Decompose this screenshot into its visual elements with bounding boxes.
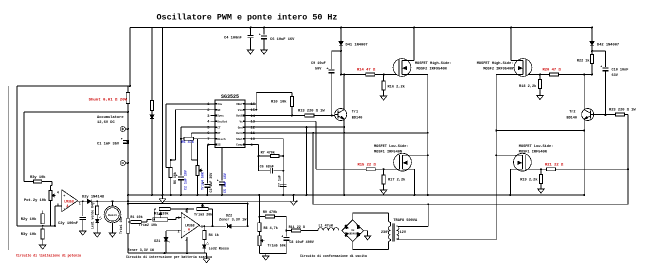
battery plus terminal [120,127,125,132]
svg-text:C6 10uF 16V: C6 10uF 16V [270,38,295,42]
wire gate2 [559,74,593,76]
svg-text:OutB: OutB [236,115,243,118]
svg-text:12V: 12V [400,231,407,235]
resistor R2y 10k [42,225,44,227]
svg-text:Trim3 20k: Trim3 20k [194,212,212,217]
capacitor C2 blue [180,172,182,176]
svg-text:Zener 3,3V 1W: Zener 3,3V 1W [128,248,155,253]
resistor R2 10k vertical [151,101,154,111]
wire x162 [162,28,164,196]
svg-text:R1 10k: R1 10k [130,215,142,220]
wire interruzione top bus [128,203,248,205]
svg-text:C9 10uF: C9 10uF [311,62,326,66]
mosfet M2 high-side right [514,59,532,77]
wire left vertical x24 [23,112,25,182]
svg-text:C6 68nF: C6 68nF [260,166,274,170]
svg-text:R3y 10k: R3y 10k [30,175,46,180]
wire pin8 [207,144,210,146]
svg-text:12,6V DC: 12,6V DC [97,121,115,125]
wire M4 drain to nodeB [496,154,510,156]
wire bridge bottom [352,242,354,250]
battery minus terminal [120,161,125,166]
wire +12V top rail [130,27,592,29]
svg-text:Shut: Shut [236,137,243,141]
svg-text:Trim2 10k: Trim2 10k [139,223,157,228]
svg-text:C10 10nF: C10 10nF [612,69,629,73]
resistor R21 22 [525,168,546,170]
capacitor C2y 100nF [82,201,84,216]
wire M1 drain up [413,28,415,61]
svg-text:C4 100nF: C4 100nF [224,37,242,41]
svg-text:Led1 verde R4y: Led1 verde R4y [91,202,95,229]
zener DZ2 3,3V 1W [228,224,232,228]
svg-text:R5 47k: R5 47k [181,140,194,145]
capacitor C10 10nF 63V [592,50,606,52]
pot Pot2y 10k [49,191,52,201]
svg-text:1: 1 [79,201,81,205]
svg-text:BD140: BD140 [566,117,577,121]
wire M1 source to nodeA [414,74,428,76]
svg-text:MOSF1 IRF540N: MOSF1 IRF540N [519,151,547,155]
wire R9 to R11 [285,217,287,231]
mosfet M4 low-side right [514,153,532,171]
svg-text:R10 10k: R10 10k [271,100,287,105]
ground rail mid [293,194,295,196]
svg-text:50V: 50V [315,68,322,72]
svg-text:Vc: Vc [239,121,243,124]
wire M3 source down [414,169,416,195]
svg-text:C7 1uF: C7 1uF [278,175,282,187]
svg-text:D2y 1N4148: D2y 1N4148 [82,195,105,199]
resistor R7 470k [259,155,271,157]
svg-text:VRef: VRef [236,102,243,106]
svg-text:SS: SS [217,144,221,147]
resistor R13 220 1W [305,114,314,117]
capacitor C6 68nF [259,170,271,172]
trimmer Trim4 blue [197,139,199,166]
svg-text:C5 1uF 16V: C5 1uF 16V [223,173,227,193]
mosfet M1 high-side left [393,59,411,77]
node gate1 [340,74,342,76]
resistor R3y 10k [42,226,44,229]
svg-text:Oscillatore PWM e ponte inter: Oscillatore PWM e ponte intero 50 Hz [157,13,338,23]
svg-text:OutA: OutA [236,132,243,135]
wire left vertical x17 [16,86,18,226]
wire c18 bus gnd [259,253,286,255]
svg-text:230V: 230V [381,231,390,235]
resistor R23 220 1W [591,114,615,116]
resistor R6 10k [170,160,172,168]
svg-text:R15 22 Ω: R15 22 Ω [358,163,377,167]
capacitor C5 [221,147,223,180]
wire M3 drain to nodeA [415,154,428,156]
trimmer Trim2 10k [147,219,151,221]
transformer TRAFO 500VA [388,226,390,230]
wire Tr2 collector up [583,75,585,109]
led Led1 verde [95,219,99,222]
wire pin12 branch down [306,127,308,195]
svg-text:C2y 100nF: C2y 100nF [58,222,78,226]
wire M4 source down [509,169,511,195]
wire pin11 branch down [312,133,314,204]
svg-text:R3y 10k: R3y 10k [21,232,37,237]
wire r3 left drop [153,209,155,220]
capacitor C6 10uF 16V [263,28,265,35]
resistor R18 2,2k [539,74,541,76]
wire cutoff bottom bus [128,252,207,254]
shunt resistor Shunt 0,01 [127,86,129,93]
svg-text:A: A [67,204,69,208]
svg-text:R9 470k: R9 470k [263,210,277,215]
svg-text:Zener 3,3V 1W: Zener 3,3V 1W [219,218,247,223]
wire pin7 [194,138,211,140]
wire pin13 gate path [245,120,316,122]
svg-text:R22 1k: R22 1k [577,59,590,64]
svg-text:Trim1 10k: Trim1 10k [119,217,123,234]
svg-text:-: - [63,207,65,211]
svg-text:Accumulatore: Accumulatore [97,115,124,120]
transistor Tr2 BD140 [582,109,594,121]
capacitor C8 10uF 400V [285,231,287,237]
wire pin15 stub [245,109,256,111]
wire nodeA down [427,155,429,195]
svg-text:CT: CT [217,126,221,129]
wire pin16 chain [245,103,256,105]
svg-text:1: 1 [201,225,203,229]
wire left loop y86 [17,85,130,87]
svg-text:L1 47uH: L1 47uH [319,225,333,229]
svg-text:MOSF2 IRF9540N: MOSF2 IRF9540N [483,68,513,72]
wire grey left vertical [8,86,10,250]
wire pin12 to emitter [245,126,344,128]
wire bridge top [352,213,354,220]
svg-text:D42 1N4007: D42 1N4007 [597,43,619,47]
resistor R22 1k [591,51,593,55]
wire x152 [151,28,153,101]
wire gate1 [341,74,366,76]
wire pin11 to nodeA [245,132,428,134]
svg-text:R3 820k: R3 820k [154,212,168,217]
wire x247 vertical [247,204,249,227]
svg-text:R14 47 Ω: R14 47 Ω [357,69,376,73]
mosfet M3 low-side left [394,153,412,171]
node gate2 [591,74,593,76]
resistor R11 22 [286,230,291,232]
inductor L1 47uH [318,228,323,231]
svg-text:R4 1k: R4 1k [209,233,219,238]
IC U1 SG3525 [215,100,245,147]
bridge rectifier [342,220,364,242]
wire x128 block [127,195,129,218]
resistor R3 820k [154,208,156,210]
svg-text:BD140: BD140 [352,117,363,121]
capacitor C4 100nF [250,28,252,36]
wire battery column top [129,28,131,87]
svg-text:MOSFET Low-Side:: MOSFET Low-Side: [519,144,554,149]
svg-text:Disch: Disch [217,137,226,141]
wire rail1 ground bus [128,194,584,196]
resistor R1y 10k [24,181,33,183]
wire comp right vertical [282,139,284,195]
node d41 top [340,27,342,29]
wire opamp1 minus [55,205,62,207]
svg-text:SG3525: SG3525 [221,94,239,100]
svg-text:Inv: Inv [217,103,222,106]
svg-text:LM358: LM358 [64,199,74,203]
wire opamp2 out [199,225,201,226]
wire nodeB emitter link [496,130,584,132]
resistor R10 10k [291,93,293,97]
transistor Tr1 BD140 [335,109,347,121]
resistor R4y [96,201,98,206]
svg-text:RT: RT [217,132,221,135]
svg-text:Circuito di interruzione per b: Circuito di interruzione per batteria sc… [126,255,212,259]
wire Tr1 collector up [343,75,345,109]
wire trafo sec top up [427,204,429,226]
node rail1 left [127,194,129,196]
svg-text:R18 2,2k: R18 2,2k [519,84,537,89]
svg-text:MOSFET Low-Side:: MOSFET Low-Side: [374,144,409,149]
wire pin1 [166,103,211,105]
svg-text:C2 1uF 16V: C2 1uF 16V [183,170,187,190]
svg-text:R6 10k: R6 10k [173,172,177,184]
resistor R15 22 [366,168,375,171]
wire pin14 to R13 [245,115,305,117]
svg-text:R8 4,7k: R8 4,7k [264,226,278,231]
resistor R14 47 [366,73,375,76]
node d42 top [591,27,593,29]
wire pin6 [191,132,210,134]
svg-text:D41 1N4007: D41 1N4007 [346,43,368,47]
wire opamp2 minus in [166,230,181,232]
svg-text:+: + [183,217,185,221]
resistor R4 1k [203,226,205,230]
wire line3 bus [313,203,628,205]
trimmer Trim1 10k [126,219,129,234]
wire pin10 to comp [245,138,283,140]
trimmer Trim3 20k [197,207,208,210]
svg-text:3: 3 [178,216,180,220]
svg-text:OscOut: OscOut [217,121,227,124]
svg-text:R11 22 Ω: R11 22 Ω [289,226,305,230]
svg-text:TRAFO 500VA: TRAFO 500VA [393,219,418,223]
svg-text:Circuito di conformazione di u: Circuito di conformazione di uscita [300,254,367,258]
svg-text:A: A [188,228,190,232]
svg-text:4: 4 [57,190,59,194]
svg-text:R23 220 Ω 1W: R23 220 Ω 1W [609,109,636,113]
svg-text:R19 2,2k: R19 2,2k [520,178,538,183]
ground cutoff [206,253,208,256]
diode D1 [150,115,154,119]
wire M2 source to nodeB [496,74,511,76]
resistor R20 47 [550,73,559,76]
svg-text:Tr1: Tr1 [352,110,358,115]
wire pin9 comp [245,144,259,146]
node c10 tap [591,50,593,52]
svg-text:8: 8 [185,209,187,213]
diode D41 1N4007 [340,28,342,42]
resistor R5 47k blue [181,138,184,140]
resistor R16 2,2k [383,74,385,76]
svg-text:2: 2 [178,229,180,233]
junction dots rails [151,194,153,196]
svg-text:NI: NI [217,109,221,112]
capacitor C3 [206,181,208,184]
svg-text:R7 470k: R7 470k [261,151,275,156]
svg-text:C8 10uF 400V: C8 10uF 400V [289,241,314,245]
resistor R17 2,2k [383,168,385,170]
svg-text:C3 1uF 35V: C3 1uF 35V [209,173,213,193]
svg-text:R13 220 Ω 1W: R13 220 Ω 1W [298,109,325,113]
node c6 [263,27,265,29]
svg-text:1N5408: 1N5408 [348,232,358,235]
resistor R9 470k [259,216,265,218]
opamp U2B LM358 [181,212,199,238]
svg-text:MOSFET High-Side:: MOSFET High-Side: [415,61,452,66]
svg-text:DZ1: DZ1 [154,240,160,244]
opamp U2A LM358 [62,190,78,212]
svg-text:Gnd: Gnd [238,125,243,129]
svg-text:Trim4 50k: Trim4 50k [201,172,205,190]
led Led2 Rosso [203,245,207,248]
ground bridge [364,230,368,232]
svg-text:MOSF2 IRF9540N: MOSF2 IRF9540N [417,68,447,72]
resistor R1 10k [128,221,130,223]
diode D2y 1N4148 [83,200,87,202]
svg-text:Shunt 0,01 Ω 20W: Shunt 0,01 Ω 20W [89,98,128,103]
svg-text:4: 4 [185,238,187,242]
svg-text:Trim5 50k: Trim5 50k [268,244,286,249]
node line3 tap [427,203,429,205]
svg-text:Sync: Sync [217,115,224,118]
resistor R19 2,2k [540,168,542,170]
wire rail2 bus [78,200,297,202]
svg-text:C1 1mF 35V: C1 1mF 35V [97,143,120,147]
wire plus input [175,217,177,219]
wire Tr2 emitter down [583,121,585,195]
svg-text:Vin: Vin [238,108,243,112]
svg-text:Led2 Rosso: Led2 Rosso [209,246,229,251]
svg-text:R2y 10k: R2y 10k [21,217,37,222]
svg-text:R16 2,2k: R16 2,2k [388,85,406,90]
wire opamp1 out [82,200,84,202]
wire M2 drain up [510,28,512,61]
resistor R8 4,7k [258,217,260,223]
wire trafo sec bottom [495,239,497,241]
wire y112 [24,111,128,113]
svg-text:-: - [183,230,185,234]
svg-text:R17 2,2k: R17 2,2k [388,178,406,183]
wire pin5 [181,126,211,128]
svg-text:63V: 63V [612,74,619,78]
zener DZ1 [164,237,168,241]
capacitor C9 10uF 50V [340,50,342,52]
svg-text:R21 22 Ω: R21 22 Ω [545,163,564,167]
wire R9 branch [258,194,260,196]
svg-text:R20 47 Ω: R20 47 Ω [543,69,562,73]
capacitor C7 1uF [280,183,286,185]
buzzer Buzz1 [112,200,114,202]
capacitor C1 1mF 35V [123,140,129,142]
wire pin2 [176,109,211,111]
svg-text:MOSFET High-Side:: MOSFET High-Side: [477,61,514,66]
svg-text:MOSF1 IRF540N: MOSF1 IRF540N [374,151,402,155]
svg-text:Tr2: Tr2 [569,110,575,115]
trimmer Trim5 [258,236,261,246]
node c4 [250,27,252,29]
wire Tr1 emitter down [343,121,345,195]
diode D42 1N4007 [591,28,593,42]
svg-text:Circuito di limitazione di pot: Circuito di limitazione di potenza [16,253,81,257]
svg-text:Comp: Comp [236,144,243,147]
svg-text:Pot.2y 10k: Pot.2y 10k [24,198,47,203]
svg-text:Buzz1: Buzz1 [108,214,117,217]
